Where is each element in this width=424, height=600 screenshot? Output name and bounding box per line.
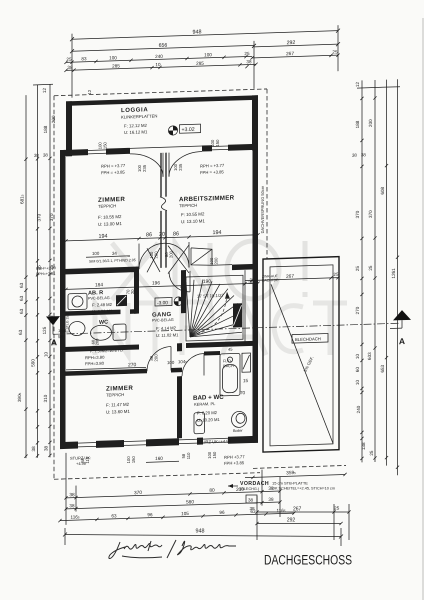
section marker right xyxy=(390,310,411,347)
stairs walk line xyxy=(197,292,230,334)
rph labels lower zimmer xyxy=(85,355,105,367)
svg-text:200: 200 xyxy=(368,119,373,127)
svg-text:U: 16.12 M1: U: 16.12 M1 xyxy=(124,129,148,135)
door arc gang to lower zimmer xyxy=(147,347,171,372)
svg-text:370: 370 xyxy=(134,490,142,496)
dim chain right vertical lines xyxy=(357,79,400,476)
svg-text:25: 25 xyxy=(355,265,360,271)
svg-text:267: 267 xyxy=(286,51,294,57)
bad area text xyxy=(197,410,220,423)
dim row 194 86 20 86 194 xyxy=(64,233,259,242)
svg-text:F: 11.47 M2: F: 11.47 M2 xyxy=(106,402,130,408)
dim row 184 196 190 38 xyxy=(64,282,259,291)
dim 100 104.5 xyxy=(167,359,187,365)
door dim 80/200 right of center wall xyxy=(164,250,173,258)
svg-text:TEPPICH: TEPPICH xyxy=(98,203,116,209)
svg-text:15 cm STB-PLATTE: 15 cm STB-PLATTE xyxy=(272,481,308,486)
dim 160 xyxy=(146,455,179,462)
dim chain bottom row 38 370 80 200 38 xyxy=(64,489,281,499)
svg-text:BLECHDACH: BLECHDACH xyxy=(295,336,321,342)
svg-text:150: 150 xyxy=(131,455,136,463)
wall loggia top xyxy=(66,95,258,106)
svg-text:150: 150 xyxy=(215,139,220,147)
svg-text:270: 270 xyxy=(355,306,360,314)
svg-text:63: 63 xyxy=(111,513,117,518)
svg-text:160: 160 xyxy=(155,456,163,461)
wall bad north xyxy=(204,351,220,356)
svg-text:38: 38 xyxy=(69,503,75,508)
room rph labels zimmer xyxy=(101,163,126,175)
vordach text block xyxy=(228,481,335,492)
door dim 100/235 right xyxy=(173,163,183,171)
svg-text:608: 608 xyxy=(380,186,385,194)
wall exterior right xyxy=(253,100,259,443)
svg-text:12: 12 xyxy=(355,81,360,87)
dim chain left labels xyxy=(17,87,56,452)
svg-text:80: 80 xyxy=(209,488,215,494)
svg-text:235: 235 xyxy=(178,163,183,171)
duct rect right of tub xyxy=(242,353,251,372)
svg-text:10: 10 xyxy=(355,353,360,359)
door leaf cross left xyxy=(147,248,160,272)
blechdach inner rect xyxy=(270,265,333,446)
double door half circle xyxy=(139,242,189,269)
svg-text:63: 63 xyxy=(19,295,24,301)
dim 270 xyxy=(64,362,147,372)
arbeitszimmer area text xyxy=(181,211,205,224)
bottom extension lines xyxy=(66,446,280,525)
wall rooms south xyxy=(60,246,258,276)
svg-text:285: 285 xyxy=(196,61,204,66)
door arc loggia-zimmer xyxy=(130,153,163,178)
dashed roof outline bottom xyxy=(54,473,260,480)
watermark row 1 xyxy=(112,241,305,300)
svg-text:FPH +3.85: FPH +3.85 xyxy=(224,460,245,466)
svg-text:38: 38 xyxy=(31,446,36,452)
stairs treads fan xyxy=(186,275,243,341)
dim chain left vertical lines xyxy=(24,84,53,458)
svg-text:20: 20 xyxy=(159,232,165,238)
ab.r area text xyxy=(92,302,113,314)
dim chain bottom row 116.5 63 96 105 96 63 116.5 xyxy=(58,511,295,522)
svg-text:RPH = +3.77: RPH = +3.77 xyxy=(101,163,126,169)
wc fixtures xyxy=(69,320,126,342)
svg-text:110: 110 xyxy=(85,456,90,464)
svg-text:25: 25 xyxy=(244,51,250,56)
svg-text:190: 190 xyxy=(203,279,211,285)
window dim pair 100/150 mid xyxy=(126,455,136,463)
svg-text:(BLECHG.): (BLECHG.) xyxy=(240,487,260,491)
svg-text:12: 12 xyxy=(42,88,47,94)
svg-text:110: 110 xyxy=(186,452,191,460)
wall loggia left xyxy=(66,101,72,156)
svg-text:63: 63 xyxy=(19,282,24,288)
page right edge line xyxy=(422,18,423,600)
dim 267 25 blechdach top xyxy=(245,276,340,282)
dashed line under blechdach xyxy=(253,465,346,468)
svg-text:200: 200 xyxy=(51,115,56,123)
svg-text:60: 60 xyxy=(355,366,360,372)
svg-text:10: 10 xyxy=(155,62,161,67)
svg-text:267: 267 xyxy=(286,274,294,280)
svg-text:235: 235 xyxy=(142,164,147,172)
svg-text:RPH = +3.77: RPH = +3.77 xyxy=(200,163,225,169)
rph labels bottom xyxy=(224,454,245,466)
svg-text:63: 63 xyxy=(19,308,24,314)
svg-text:20: 20 xyxy=(130,289,135,294)
svg-text:38: 38 xyxy=(249,506,255,511)
hatched pier gang west xyxy=(116,295,127,306)
wall middle south xyxy=(60,341,253,352)
svg-text:RPH=3.80: RPH=3.80 xyxy=(85,355,105,361)
svg-text:F: 18.55 M2: F: 18.55 M2 xyxy=(98,214,122,220)
dim chain bottom row 38 580 38 xyxy=(64,500,281,510)
svg-text:Boiler: Boiler xyxy=(233,429,243,433)
svg-text:292: 292 xyxy=(287,518,296,524)
wall exterior left xyxy=(60,150,66,447)
svg-text:TEPPICH: TEPPICH xyxy=(106,392,124,398)
svg-text:FPH=+3.81: FPH=+3.81 xyxy=(36,272,55,277)
svg-text:38: 38 xyxy=(361,152,366,157)
room label BAD + WC xyxy=(193,394,224,407)
svg-text:38: 38 xyxy=(69,492,75,498)
svg-text:196: 196 xyxy=(152,280,160,286)
svg-text:96: 96 xyxy=(219,510,225,515)
svg-text:188: 188 xyxy=(355,120,360,128)
svg-text:948: 948 xyxy=(196,529,205,535)
svg-text:3905: 3905 xyxy=(17,392,22,402)
svg-text:70: 70 xyxy=(240,390,246,395)
svg-text:200: 200 xyxy=(214,257,219,265)
svg-text:38: 38 xyxy=(67,65,73,70)
svg-text:A: A xyxy=(51,337,57,347)
hatched pier stairs east xyxy=(233,303,242,327)
loggia area text xyxy=(124,123,148,135)
svg-text:86: 86 xyxy=(146,232,152,238)
door dim 80/200 xyxy=(149,354,158,362)
bathtub xyxy=(220,353,240,396)
ab.r appliance xyxy=(68,293,87,310)
svg-text:U: 13.00 M1: U: 13.00 M1 xyxy=(98,221,122,227)
svg-text:370: 370 xyxy=(37,213,42,221)
door arc loggia-arbeitszimmer xyxy=(169,152,202,177)
dim right bottom 38 267 25 xyxy=(255,496,350,540)
room label AB.R xyxy=(88,290,110,301)
window dim pair 58/110 right xyxy=(181,452,191,460)
svg-text:DACHVERSPRUNG 50cm: DACHVERSPRUNG 50cm xyxy=(260,185,265,233)
svg-text:1165: 1165 xyxy=(71,514,80,519)
watermark row 2 xyxy=(95,302,347,355)
svg-text:38: 38 xyxy=(268,497,274,502)
svg-text:138: 138 xyxy=(361,442,366,450)
svg-text:96: 96 xyxy=(147,512,153,517)
svg-text:184: 184 xyxy=(95,282,103,288)
svg-text:U: 13.60 M1: U: 13.60 M1 xyxy=(106,409,130,415)
dim chain top row 656 / 292 xyxy=(70,38,340,95)
survey marker -3.00 xyxy=(155,297,183,307)
wall bad west xyxy=(177,343,182,438)
boiler circle xyxy=(232,411,247,433)
svg-text:OK SCHEITEL=+2.45, STICH=10 cm: OK SCHEITEL=+2.45, STICH=10 cm xyxy=(272,487,335,491)
lower zimmer area text xyxy=(106,402,130,415)
svg-text:285: 285 xyxy=(112,63,120,68)
svg-text:200: 200 xyxy=(169,250,174,258)
svg-text:PVC-BELAG: PVC-BELAG xyxy=(88,296,110,301)
wall bottom with window openings xyxy=(60,436,258,449)
svg-text:DACHGESCHOSS: DACHGESCHOSS xyxy=(264,553,352,568)
survey marker +3.02 xyxy=(168,124,200,135)
svg-text:F: 4.14 M2: F: 4.14 M2 xyxy=(156,325,177,331)
svg-text:+3.02: +3.02 xyxy=(182,127,195,133)
svg-text:58: 58 xyxy=(58,334,63,339)
room label lower ZIMMER xyxy=(106,385,133,398)
room rph labels arbeitszimmer xyxy=(200,163,225,175)
svg-text:948: 948 xyxy=(193,29,202,35)
dim row 100 34 xyxy=(86,250,130,257)
svg-text:125: 125 xyxy=(42,326,47,334)
dim chain top row 948 xyxy=(70,25,340,98)
dim pair 60/200 wc xyxy=(91,338,100,346)
svg-text:25: 25 xyxy=(66,57,72,62)
svg-text:1261: 1261 xyxy=(391,268,396,279)
bad small dims xyxy=(228,346,249,396)
room label ARBEITSZIMMER xyxy=(179,194,235,208)
svg-text:100: 100 xyxy=(109,55,117,60)
svg-text:DACHFBO: DACHFBO xyxy=(262,278,279,283)
svg-text:F: 12.12 M2: F: 12.12 M2 xyxy=(124,123,148,129)
window dim pair 58/110 left xyxy=(80,456,90,464)
signature handwriting xyxy=(109,540,236,559)
door dim 100/200 gang east xyxy=(209,257,218,265)
dashed roof outline left xyxy=(53,96,55,480)
svg-text:18: 18 xyxy=(248,281,252,285)
bad washstand xyxy=(194,412,205,433)
svg-text:200: 200 xyxy=(154,354,159,362)
svg-text:240: 240 xyxy=(356,405,361,413)
room label GANG xyxy=(152,312,174,323)
svg-text:188: 188 xyxy=(43,125,48,133)
svg-text:370: 370 xyxy=(49,213,54,221)
room label ZIMMER xyxy=(98,196,125,209)
svg-text:580: 580 xyxy=(186,499,194,505)
svg-text:FPH = +3.85: FPH = +3.85 xyxy=(200,169,224,175)
wall loggia right xyxy=(252,95,258,150)
svg-text:100: 100 xyxy=(204,52,212,57)
wall line east of stairs xyxy=(244,270,246,344)
wall ab.r south / wc north xyxy=(66,309,140,316)
svg-text:U: 13.10 M1: U: 13.10 M1 xyxy=(181,218,205,224)
blechdach label xyxy=(292,334,328,344)
svg-text:38: 38 xyxy=(248,498,254,503)
svg-text:310: 310 xyxy=(43,394,48,402)
svg-text:WC: WC xyxy=(99,320,108,326)
svg-text:86: 86 xyxy=(173,231,179,237)
svg-text:38: 38 xyxy=(246,59,252,64)
zimmer area text xyxy=(98,214,122,227)
svg-text:6815: 6815 xyxy=(20,194,25,204)
svg-text:267: 267 xyxy=(293,507,302,513)
svg-text:100: 100 xyxy=(92,251,100,256)
svg-text:U: 4.36 M1: U: 4.36 M1 xyxy=(92,308,113,314)
dim right bottom 292 xyxy=(255,522,342,525)
door arc gang to arbeitszimmer xyxy=(169,271,190,293)
gang area text xyxy=(156,325,179,338)
room label LOGGIA xyxy=(121,107,157,120)
window dim pair 100/150 bad xyxy=(207,451,217,459)
svg-text:25: 25 xyxy=(368,265,373,271)
door dim 100/235 left xyxy=(137,164,147,172)
svg-text:25: 25 xyxy=(369,450,374,456)
fl.d dach label xyxy=(223,359,234,368)
svg-text:A: A xyxy=(399,336,405,346)
svg-text:RPH=+3.80: RPH=+3.80 xyxy=(36,266,56,271)
svg-text:45: 45 xyxy=(228,347,233,352)
svg-text:34: 34 xyxy=(112,251,117,256)
door arc bad xyxy=(182,353,204,376)
wall lower zimmer top xyxy=(66,368,183,376)
section marker left xyxy=(46,316,67,348)
wall center between zimmer and arbeitszimmer xyxy=(161,153,166,268)
wall gang east / stairs west xyxy=(181,270,186,313)
svg-text:RPH +3.77: RPH +3.77 xyxy=(224,454,245,460)
svg-text:FPH = +3.85: FPH = +3.85 xyxy=(101,169,125,175)
svg-text:83: 83 xyxy=(81,56,87,61)
blechdach diagonal xyxy=(271,282,333,445)
svg-text:194: 194 xyxy=(213,230,222,236)
svg-text:KERAM. PL: KERAM. PL xyxy=(194,401,216,407)
svg-text:240: 240 xyxy=(155,54,163,59)
svg-text:12: 12 xyxy=(87,89,92,94)
svg-text:105: 105 xyxy=(181,511,189,516)
rph text left edge xyxy=(36,266,56,276)
svg-text:17 ST 19.1/27: 17 ST 19.1/27 xyxy=(197,293,225,299)
svg-text:653: 653 xyxy=(380,364,385,372)
door leaf cross right xyxy=(168,245,189,274)
svg-text:38: 38 xyxy=(34,153,39,158)
svg-text:603: 603 xyxy=(367,352,372,360)
dim pair 70/20 xyxy=(126,289,135,295)
svg-text:370: 370 xyxy=(355,210,360,218)
svg-text:370: 370 xyxy=(368,210,373,218)
boxed 38 xyxy=(246,495,257,503)
svg-text:150: 150 xyxy=(212,451,217,459)
svg-text:63: 63 xyxy=(18,329,23,335)
svg-text:200: 200 xyxy=(154,251,159,259)
svg-text:PVC-BELAG: PVC-BELAG xyxy=(152,318,174,323)
svg-text:FPH=3.80: FPH=3.80 xyxy=(85,361,105,367)
svg-text:10: 10 xyxy=(355,379,360,385)
svg-text:1.58: 1.58 xyxy=(58,328,67,333)
svg-text:292: 292 xyxy=(287,40,296,46)
dim chain right labels xyxy=(352,80,396,456)
svg-text:38: 38 xyxy=(352,153,357,158)
dashed roof outline right drop xyxy=(266,89,268,259)
wall ab.r east xyxy=(134,272,139,314)
svg-text:25: 25 xyxy=(332,49,338,54)
svg-text:194: 194 xyxy=(99,234,108,240)
blechdach outer rect xyxy=(263,257,339,452)
svg-text:10: 10 xyxy=(44,351,49,357)
svg-text:TEPPICH: TEPPICH xyxy=(179,203,197,209)
dim chain top row 38 285 10 285 38 xyxy=(64,63,257,74)
svg-text:U: 11.02 M1: U: 11.02 M1 xyxy=(156,332,179,338)
door dim 100/200 left of center wall xyxy=(149,251,158,259)
svg-text:38: 38 xyxy=(43,152,48,157)
window dim 100/150 left xyxy=(98,141,108,149)
svg-text:25: 25 xyxy=(334,506,340,512)
svg-text:656: 656 xyxy=(159,43,168,49)
svg-text:38: 38 xyxy=(44,445,49,451)
svg-text:15: 15 xyxy=(243,378,249,383)
window dim 100/150 right xyxy=(210,139,220,147)
dim chain top row 25 83 100 240 100 25 / 267 25 xyxy=(64,52,339,66)
wall loggia bottom with window openings xyxy=(60,144,258,156)
svg-text:-3.00: -3.00 xyxy=(157,300,168,306)
svg-text:150: 150 xyxy=(103,141,108,149)
wall break squiggle xyxy=(160,197,167,211)
svg-text:590: 590 xyxy=(31,359,36,367)
svg-text:25: 25 xyxy=(334,272,339,277)
section line A-A xyxy=(53,323,399,334)
dim chain bottom row 948 xyxy=(63,528,343,546)
dim 359.5 xyxy=(245,473,347,479)
dashed roof outline top xyxy=(54,89,267,96)
svg-text:F: 10.55 M2: F: 10.55 M2 xyxy=(181,211,205,217)
svg-text:F: 2.48 M2: F: 2.48 M2 xyxy=(92,302,113,308)
